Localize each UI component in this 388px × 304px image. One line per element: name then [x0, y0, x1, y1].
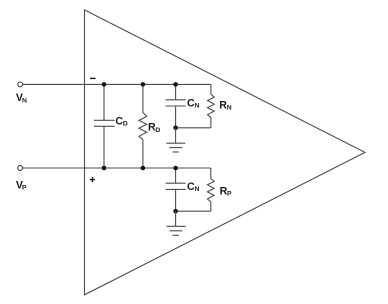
resistor RN — [208, 84, 215, 127]
capacitor CN (upper) — [166, 84, 186, 127]
svg-text:N: N — [227, 105, 232, 112]
svg-text:P: P — [22, 185, 27, 192]
node: CN lower top junction — [173, 166, 178, 171]
node: CD bottom junction — [102, 166, 107, 171]
wire: VN input line — [23, 83, 211, 85]
node: RD bottom junction — [141, 166, 146, 171]
node: upper network junction — [173, 126, 178, 131]
minus sign (inverting input) — [90, 77, 96, 79]
resistor RD — [139, 84, 147, 168]
capacitor CD — [94, 84, 115, 168]
node: CD top junction — [102, 82, 107, 87]
ground (upper) — [166, 128, 185, 152]
node: CN upper top junction — [173, 82, 178, 87]
op-amp U1 — [85, 10, 366, 295]
wire: lower network bottom rail — [176, 210, 211, 212]
wire: upper network bottom rail — [176, 127, 211, 129]
resistor RP — [207, 168, 214, 211]
wire: VP input line — [23, 167, 211, 169]
non-inverting input terminal (open circle) — [18, 166, 23, 171]
svg-text:N: N — [22, 97, 27, 104]
node: RD top junction — [141, 82, 146, 87]
svg-text:D: D — [123, 121, 128, 128]
svg-text:P: P — [227, 191, 232, 198]
inverting input terminal (open circle) — [18, 82, 23, 87]
svg-text:D: D — [155, 127, 160, 134]
plus sign (non-inverting input) — [90, 177, 95, 182]
capacitor CN (lower) — [166, 168, 186, 211]
svg-text:N: N — [195, 186, 200, 193]
ground (lower) — [167, 211, 186, 235]
node: lower network junction — [173, 209, 178, 214]
svg-text:N: N — [195, 103, 200, 110]
